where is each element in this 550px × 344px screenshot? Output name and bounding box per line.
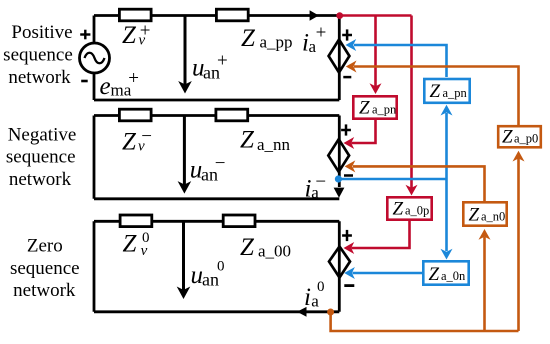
arrowhead: red into D3 plus side xyxy=(344,242,355,254)
svg-text:a_0p: a_0p xyxy=(405,204,429,218)
wire: negative loop left xyxy=(93,116,96,199)
label Za_pp xyxy=(241,25,293,52)
wire: positive loop right side xyxy=(338,16,341,101)
arrowhead: orange into D2 minus side xyxy=(345,160,356,172)
resistor Za_nn body xyxy=(216,109,248,121)
svg-text:sequence: sequence xyxy=(3,45,73,66)
caption: Zero sequence network xyxy=(10,235,80,301)
label Za_nn xyxy=(240,127,291,155)
wire: zero loop bottom xyxy=(94,310,339,313)
label Zv+ xyxy=(122,21,150,50)
wire: blue from Za_0n box left to D3 xyxy=(353,272,423,275)
svg-text:Z: Z xyxy=(123,231,138,258)
arrow i_a- (current arrow down into bottom wire) xyxy=(334,188,345,198)
svg-text:Zero: Zero xyxy=(27,235,63,256)
impedance box Za_0p (red) xyxy=(387,197,431,219)
label Za_00 xyxy=(240,234,291,261)
D3 plus mark xyxy=(342,230,352,241)
wire: red vertical down to Za_0p box top xyxy=(410,16,413,189)
wire: positive loop bottom xyxy=(94,99,339,102)
arrow i_a0 (current arrow left on bottom wire) xyxy=(297,307,307,317)
arrowhead: orange into D1 minus side xyxy=(346,61,357,73)
caption: Negative sequence network xyxy=(6,124,76,190)
svg-text:Z: Z xyxy=(469,205,480,226)
svg-text:+: + xyxy=(217,50,228,71)
svg-text:e: e xyxy=(100,73,111,100)
arrowhead: orange up into Za_n0 bottom xyxy=(479,229,491,240)
label i_a- xyxy=(305,171,327,202)
svg-text:sequence: sequence xyxy=(6,147,76,168)
svg-text:−: − xyxy=(315,171,326,192)
svg-text:network: network xyxy=(9,169,72,190)
dependent source D2 diamond xyxy=(328,139,349,172)
label e_ma+ xyxy=(100,68,140,100)
svg-text:Z: Z xyxy=(122,22,137,49)
svg-text:0: 0 xyxy=(317,279,325,295)
svg-text:a_00: a_00 xyxy=(258,242,291,261)
arrowhead: red down into Za_pn top xyxy=(370,83,382,94)
svg-text:a_pp: a_pp xyxy=(260,33,293,52)
wire: zero loop left xyxy=(93,221,96,311)
caption: Positive sequence network xyxy=(3,22,73,88)
wire: orange from Za_n0 box top up then left to D2 xyxy=(353,166,485,201)
svg-text:network: network xyxy=(13,280,76,301)
wire: blue from Za_pn box top up then left to D1 xyxy=(354,45,447,77)
wire: zero loop top xyxy=(94,220,339,223)
label Zv0 xyxy=(123,230,150,259)
arrowhead: blue into D3 minus side xyxy=(344,267,355,279)
wire: negative loop right side xyxy=(338,116,341,188)
wire: positive loop left xyxy=(93,16,96,101)
arrowhead: blue into D1 plus side xyxy=(346,39,357,51)
wire: positive loop top xyxy=(94,14,339,17)
svg-text:Z: Z xyxy=(502,127,513,148)
impedance box Za_p0 (orange) xyxy=(498,126,541,147)
label u_an0 xyxy=(191,259,225,290)
D1 minus mark xyxy=(343,76,351,79)
resistor Za_00 body xyxy=(223,215,255,227)
svg-text:−: − xyxy=(215,153,226,174)
svg-text:a_n0: a_n0 xyxy=(481,210,505,224)
svg-text:Negative: Negative xyxy=(8,124,77,145)
dependent source D3 diamond xyxy=(329,247,350,278)
arrowhead: red into D2 plus side xyxy=(344,137,355,149)
wire: orange from bus up to Za_p0 bottom xyxy=(517,159,520,332)
node B junction dot (blue) xyxy=(335,175,342,182)
svg-text:−: − xyxy=(141,126,152,147)
label u_an+ xyxy=(192,50,228,82)
node C junction dot (orange) xyxy=(327,309,334,316)
wire: red from Za_0p box bottom down then left to D3 xyxy=(352,221,410,248)
svg-text:Z: Z xyxy=(241,25,256,52)
source E1 circle (e_ma) xyxy=(80,43,110,73)
wire: blue vertical from node B level up to Za_pn box bottom xyxy=(445,113,448,179)
node A junction dot (red) xyxy=(336,12,343,19)
impedance box Za_0n (blue) xyxy=(423,261,468,284)
wire: red vertical down to Za_pn red box top xyxy=(374,16,377,88)
arrowhead: orange up into Za_p0 bottom xyxy=(513,151,525,162)
arrow i_a+ (current arrow right on top wire) xyxy=(310,10,319,21)
arrowhead: blue up into Za_pn bottom xyxy=(441,105,453,116)
D2 plus mark xyxy=(341,124,351,135)
wire: orange bus from node C down then right xyxy=(331,312,519,331)
label i_a+ xyxy=(302,23,326,57)
resistor Zv+ body xyxy=(119,9,151,21)
D1 plus mark xyxy=(342,29,352,40)
svg-text:0: 0 xyxy=(217,259,225,275)
svg-text:0: 0 xyxy=(142,230,150,246)
D3 minus mark xyxy=(344,284,354,287)
impedance box Za_n0 (orange) xyxy=(463,202,506,225)
arrowhead: red down into Za_0p top xyxy=(406,185,418,196)
svg-text:Z: Z xyxy=(430,81,441,102)
wire: orange from Za_p0 box top up then left to D1 xyxy=(354,67,519,126)
impedance box Za_pn (red) xyxy=(353,96,396,118)
arrow u_an- (voltage arrow down) xyxy=(183,116,186,186)
label u_an- xyxy=(190,153,226,184)
svg-text:Z: Z xyxy=(393,199,404,220)
arrow u_an0 (voltage arrow down) xyxy=(182,222,185,291)
svg-text:a_nn: a_nn xyxy=(257,135,291,154)
svg-text:a_p0: a_p0 xyxy=(514,132,538,146)
source E1 minus polarity xyxy=(81,80,88,83)
wire: zero loop right side xyxy=(338,221,341,311)
label i_a0 xyxy=(304,279,325,311)
svg-text:+: + xyxy=(128,68,139,89)
impedance box Za_pn (blue) xyxy=(424,79,469,103)
svg-text:Z: Z xyxy=(359,98,370,119)
D2 minus mark xyxy=(344,174,353,177)
dependent source D1 diamond xyxy=(329,40,350,73)
svg-text:a_pn: a_pn xyxy=(372,103,397,117)
svg-text:i: i xyxy=(304,284,311,311)
wire: orange from bus up to Za_n0 bottom xyxy=(483,237,486,331)
svg-text:a_pn: a_pn xyxy=(443,86,468,100)
wire: blue vertical down to Za_0n box top xyxy=(445,179,448,251)
source E1 sine symbol xyxy=(85,53,105,64)
resistor Zv0 body xyxy=(120,215,152,227)
wire: red from Za_pn box bottom down then left to D2 xyxy=(352,120,376,143)
svg-text:Positive: Positive xyxy=(11,22,72,43)
source E1 plus polarity xyxy=(80,30,90,40)
wire: blue horizontal from node B to vertical xyxy=(338,178,446,181)
svg-text:network: network xyxy=(8,67,71,88)
wire: negative loop top xyxy=(94,114,339,117)
svg-text:+: + xyxy=(140,21,151,42)
svg-text:+: + xyxy=(316,23,327,44)
svg-text:Z: Z xyxy=(122,129,137,156)
svg-text:sequence: sequence xyxy=(10,258,80,279)
svg-text:Z: Z xyxy=(240,234,255,261)
wire: negative loop bottom xyxy=(94,197,339,200)
arrowhead: blue down into Za_0n top xyxy=(441,249,453,260)
wire: red from node A right along top xyxy=(340,14,412,17)
arrow u_an+ (voltage arrow down) xyxy=(184,16,187,86)
svg-text:a_0n: a_0n xyxy=(441,269,466,283)
resistor Za_pp body xyxy=(216,9,248,21)
svg-text:Z: Z xyxy=(240,127,255,154)
resistor Zv- body xyxy=(119,109,151,121)
svg-text:Z: Z xyxy=(429,264,440,285)
label Zv- xyxy=(122,126,152,155)
